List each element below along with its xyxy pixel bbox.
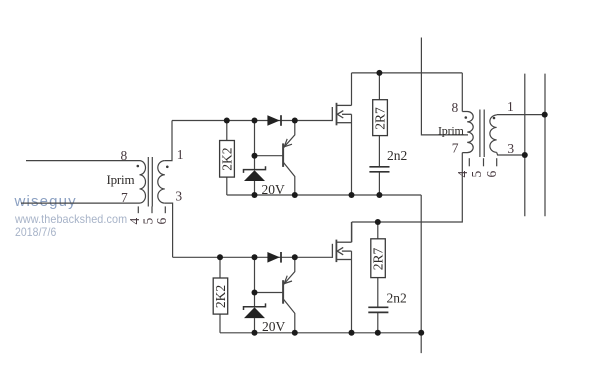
wire: left input top (pin 8 of T1)	[26, 160, 140, 162]
svg-text:6: 6	[484, 171, 499, 178]
resistor R3 2K2 (lower) leads	[219, 257, 221, 278]
svg-text:2n2: 2n2	[387, 291, 407, 306]
resistor R2 2R7 (upper) leads	[378, 73, 380, 100]
node: M2 source rail (lower)	[349, 330, 355, 336]
svg-text:20V: 20V	[262, 319, 286, 334]
capacitor C1 2n2 (upper)	[369, 167, 389, 172]
zener D4 20V (lower) leads	[254, 257, 256, 307]
node: Q1 base tee (upper)	[252, 153, 258, 159]
transformer T2 bottom pin stub 4	[468, 158, 470, 166]
node: zener bottom rail (lower)	[252, 330, 258, 336]
wire: upper gate-drive rail	[172, 120, 332, 122]
wire: base of Q1	[255, 155, 284, 157]
wire: T1 pin 1 up to gate-drive rail	[165, 121, 172, 161]
watermark: wiseguy	[15, 193, 77, 210]
svg-text:2K2: 2K2	[220, 148, 235, 171]
node: C2 bottom rail (lower)	[375, 330, 381, 336]
svg-text:3: 3	[507, 141, 514, 156]
node: 2R7 top rail (lower)	[375, 219, 381, 225]
capacitor C2 2n2 (lower) bottom lead	[377, 312, 379, 332]
transformer T2 pin 8 lead	[461, 73, 463, 112]
zener D2 20V (upper) leads	[254, 121, 256, 170]
svg-text:6: 6	[154, 218, 169, 225]
transformer T1 core	[147, 157, 149, 207]
transistor Q2 PNP (lower)	[283, 257, 295, 333]
capacitor C2 2n2 (lower)	[368, 307, 388, 312]
watermark: www.thebackshed.com	[15, 212, 127, 226]
T2 secondary polarity dot	[493, 117, 496, 120]
transformer T1 primary winding (left, Iprim)	[140, 161, 146, 204]
wire: T2 pin 3 to right bus	[497, 152, 525, 155]
resistor R1 2K2 (upper)	[220, 141, 235, 178]
diode D1 (upper)	[267, 115, 281, 126]
T1 primary polarity dot	[137, 165, 140, 168]
transformer T2 primary winding (left, Iprim, center-tapped)	[462, 112, 473, 153]
MOSFET M1 source down to upper source rail	[351, 114, 353, 195]
MOSFET M1 (upper)	[332, 103, 351, 126]
wire: top drain rail	[352, 72, 463, 74]
node: center vertical on lower source rail	[418, 330, 424, 336]
node: T2 pin 1 on right bus 2	[542, 112, 548, 118]
transformer T1 bottom pin stub 5	[151, 206, 153, 213]
node: Q2 collector rail (lower)	[292, 330, 298, 336]
zener D2 20V (upper)	[244, 166, 266, 181]
transformer T2 secondary winding (right)	[490, 115, 497, 152]
node: 2K2 top (upper)	[224, 118, 230, 124]
wire: lower gate-drive rail	[173, 256, 333, 258]
MOSFET M1 drain to top rail	[351, 73, 353, 106]
MOSFET M2 (lower)	[332, 222, 351, 262]
node: zener top (lower)	[252, 254, 258, 260]
wire: center vertical to T2 center tap	[421, 38, 468, 135]
wire: lower drain rail	[351, 222, 353, 242]
wire: T2 pin 1 to right bus	[497, 114, 545, 116]
transformer T2 core	[479, 110, 481, 158]
resistor R2 2R7 (upper)	[373, 100, 388, 136]
watermark: date 2018/7/6	[15, 225, 56, 239]
transformer T2 pin 7 lead down to lower drain rail	[352, 153, 463, 222]
capacitor C1 2n2 (upper) bottom lead	[378, 172, 380, 195]
resistor R3 2K2 (lower)	[213, 278, 228, 314]
svg-text:Iprim: Iprim	[107, 172, 135, 187]
wire: upper source rail	[227, 194, 421, 196]
transformer T1 bottom pin stub 6	[164, 206, 166, 213]
svg-text:8: 8	[452, 100, 459, 115]
diode D3 (lower)	[267, 252, 281, 263]
svg-text:2R7: 2R7	[371, 247, 386, 270]
svg-text:2n2: 2n2	[387, 148, 407, 163]
svg-text:1: 1	[177, 147, 184, 162]
resistor R4 2R7 (lower) leads	[377, 222, 379, 239]
svg-text:1: 1	[507, 99, 514, 114]
node: 2K2 top (lower)	[217, 254, 223, 260]
resistor R1 2K2 (upper) leads	[226, 121, 228, 141]
node: zener bottom rail (upper)	[252, 192, 258, 198]
T1 secondary polarity dot	[166, 166, 169, 169]
svg-text:4: 4	[455, 171, 470, 178]
svg-text:20V: 20V	[262, 182, 286, 197]
node: Q2 base tee (lower)	[252, 290, 258, 296]
node: M1 source rail (upper)	[349, 192, 355, 198]
wire: T1 pin 3 down to lower gate-drive rail	[165, 203, 173, 257]
node: C1 bottom rail (upper)	[376, 192, 382, 198]
wire: right bus 2	[544, 74, 546, 217]
transistor Q1 PNP (upper)	[283, 121, 295, 196]
svg-text:2R7: 2R7	[373, 107, 388, 130]
svg-text:2K2: 2K2	[213, 285, 228, 308]
svg-text:5: 5	[469, 171, 484, 178]
svg-text:3: 3	[175, 189, 182, 204]
wire: left input bottom (pin 7 of T1)	[21, 202, 140, 204]
transformer T1 bottom pin stub 4	[137, 206, 139, 213]
wire: upper source rail down to lower source rail and stub	[420, 195, 422, 353]
MOSFET M2 source down to lower source rail	[351, 251, 353, 333]
transformer T1 secondary winding (right)	[158, 161, 165, 204]
svg-text:Iprim: Iprim	[438, 123, 465, 137]
zener D4 20V (lower)	[244, 303, 266, 318]
resistor R4 2R7 (lower)	[371, 239, 386, 278]
svg-text:8: 8	[121, 148, 128, 163]
polarity dots	[137, 116, 496, 168]
node: T2 pin 3 on right bus 1	[522, 152, 528, 158]
wire: base of Q2	[255, 292, 284, 294]
node: Q1 collector rail (upper)	[292, 192, 298, 198]
node: zener top (upper)	[252, 118, 258, 124]
wire: lower source rail	[220, 332, 421, 334]
transformer T2 bottom pin stub 5	[483, 158, 485, 166]
svg-text:7: 7	[121, 190, 128, 205]
node: Q2 emitter / gate (lower)	[292, 254, 298, 260]
svg-text:7: 7	[452, 141, 459, 156]
node: 2R7 top rail (upper)	[376, 70, 382, 76]
wire: right bus 1	[524, 74, 526, 217]
T2 primary polarity dot	[465, 116, 468, 119]
transformer T2 bottom pin stub 6	[496, 158, 498, 166]
node: Q1 emitter / gate (upper)	[292, 118, 298, 124]
